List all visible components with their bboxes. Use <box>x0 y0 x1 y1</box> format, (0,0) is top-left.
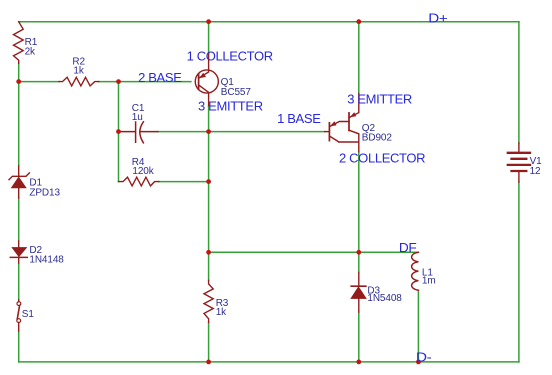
svg-text:2 BASE: 2 BASE <box>138 70 182 85</box>
resistor R1 <box>14 22 24 64</box>
svg-text:D+: D+ <box>428 11 447 26</box>
inductor L1 <box>412 252 419 290</box>
node base wire / C1 branch <box>116 79 121 84</box>
node top rail / Q1 collector <box>206 19 211 24</box>
node junction dots <box>16 19 421 364</box>
svg-text:120k: 120k <box>132 166 154 177</box>
switch S1 <box>18 300 20 302</box>
svg-text:1 BASE: 1 BASE <box>277 111 321 126</box>
svg-text:1N4148: 1N4148 <box>29 255 64 266</box>
wire C1 to Q2 base (y=131.6) <box>158 131 325 133</box>
wire bottom rail D- <box>19 361 519 363</box>
svg-text:1N5408: 1N5408 <box>367 293 402 304</box>
resistor R2 <box>59 77 99 86</box>
wire right rail segments <box>518 22 520 362</box>
wire R4 right to center vertical <box>159 181 209 183</box>
resistor R4 <box>119 177 159 186</box>
diode D1 (zener ZPD13) <box>18 166 20 198</box>
node C1 right / Q1 emitter <box>206 129 211 134</box>
transistor Q2 (BD902) <box>325 93 359 151</box>
node R3 bottom <box>206 360 211 365</box>
wire left rail segments <box>18 63 20 362</box>
svg-text:S1: S1 <box>22 309 35 320</box>
diode D3 (1N5408) <box>358 272 360 312</box>
node top rail / Q2 emitter <box>356 19 361 24</box>
svg-text:1k: 1k <box>216 307 227 318</box>
svg-text:BC557: BC557 <box>221 87 252 98</box>
wire Q2 vertical x=358.8 <box>358 22 360 362</box>
svg-text:BD902: BD902 <box>362 133 393 144</box>
battery V1 <box>518 143 520 182</box>
wire top rail D+ <box>19 21 519 23</box>
svg-text:3 EMITTER: 3 EMITTER <box>347 92 412 107</box>
diode D2 (1N4148) <box>18 241 20 263</box>
node L1 bottom <box>416 360 421 365</box>
wire base of Q1 (y=81.6) <box>19 81 59 83</box>
capacitor C1 <box>120 122 135 142</box>
wire center vertical x=208.6 <box>208 22 210 362</box>
wire mid horizontal DF (y=252.3) <box>209 251 419 253</box>
wire L1 bottom to rail <box>417 290 419 362</box>
svg-text:1 COLLECTOR: 1 COLLECTOR <box>187 49 273 64</box>
svg-text:1k: 1k <box>73 66 84 77</box>
svg-text:DF: DF <box>399 240 417 255</box>
node left rail / base wire <box>16 79 21 84</box>
svg-text:1u: 1u <box>132 112 143 123</box>
svg-text:12: 12 <box>530 166 541 177</box>
node R4 right <box>206 179 211 184</box>
node D3 top / DF wire <box>356 250 361 255</box>
svg-text:2k: 2k <box>25 47 36 58</box>
svg-text:ZPD13: ZPD13 <box>29 187 60 198</box>
node R3 top / DF wire <box>206 250 211 255</box>
node D3 bottom <box>356 360 361 365</box>
svg-text:3 EMITTER: 3 EMITTER <box>198 98 263 113</box>
wire vertical x=118.5 from base wire to R4 <box>118 82 120 182</box>
svg-text:1m: 1m <box>422 275 436 286</box>
svg-text:2 COLLECTOR: 2 COLLECTOR <box>339 151 425 166</box>
svg-text:D-: D- <box>416 350 432 365</box>
resistor R3 <box>204 280 213 322</box>
node C1 left <box>116 129 121 134</box>
transistor Q1 (BC557) <box>195 54 218 106</box>
